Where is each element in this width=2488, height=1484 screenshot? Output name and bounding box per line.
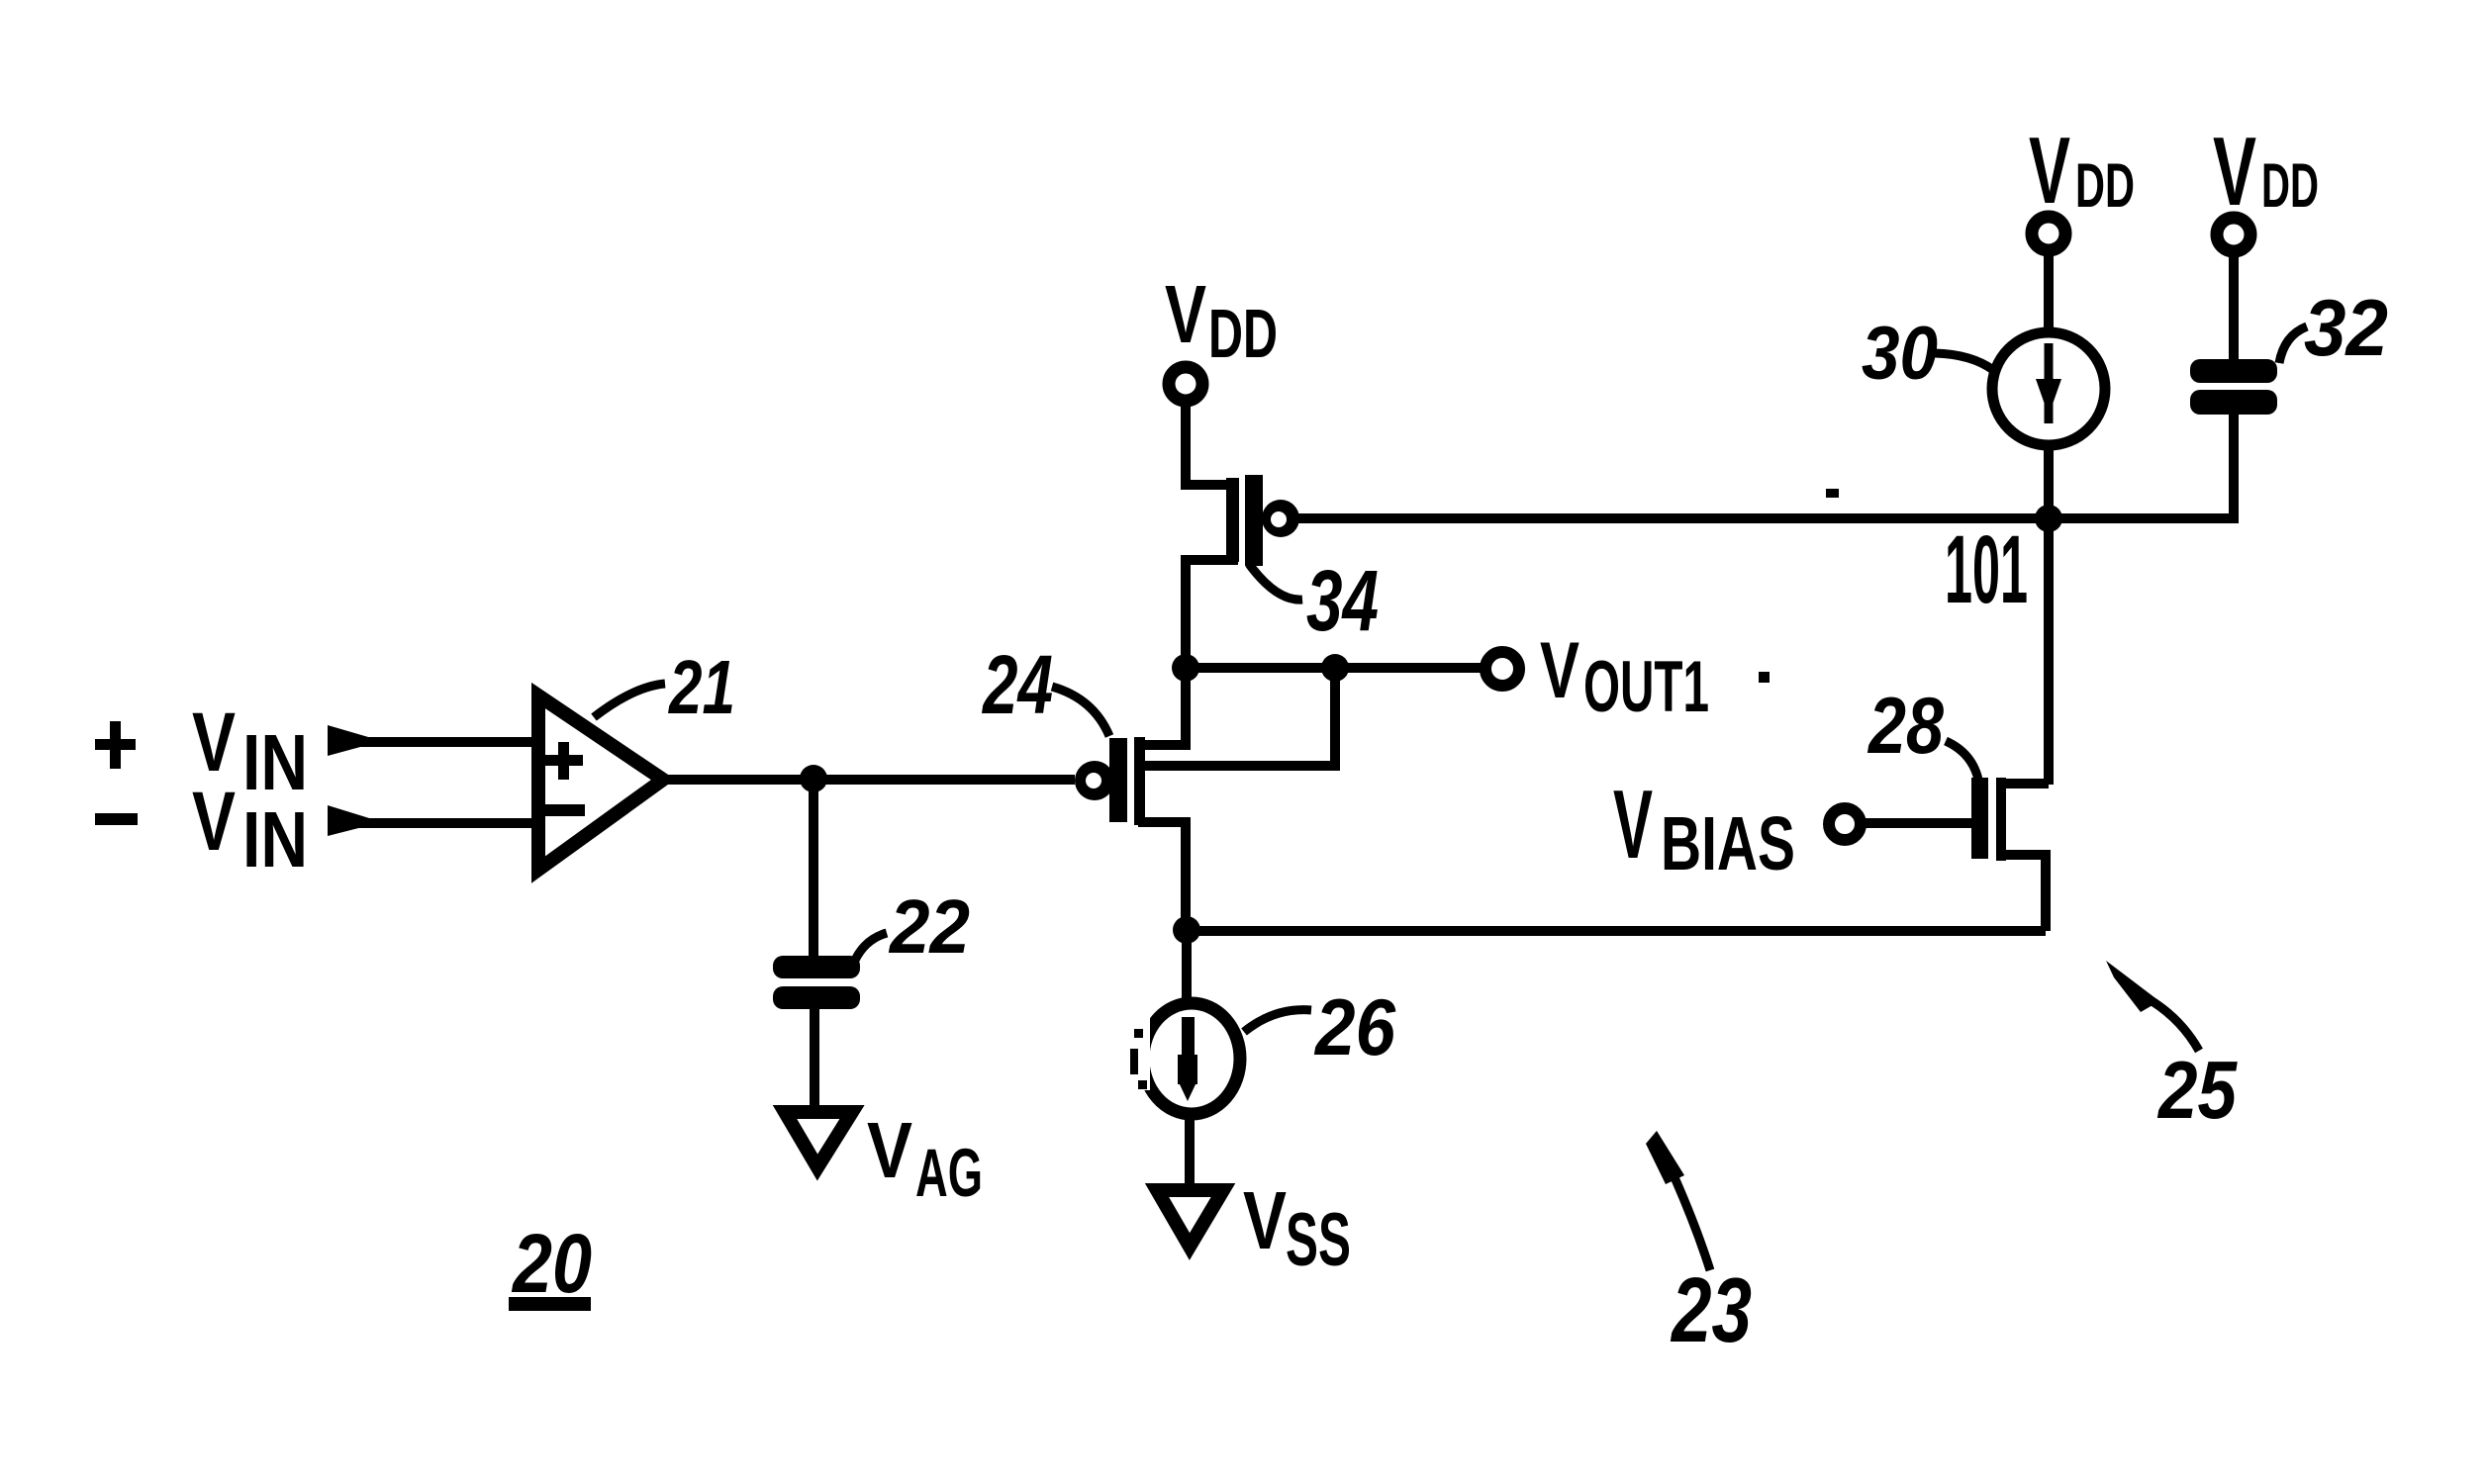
- wire bottom rail from transistor 24 source to transistor 28 source: [1187, 926, 2046, 936]
- wire capacitor 22 to VAG ground: [810, 1009, 819, 1112]
- label 30: [1862, 312, 1993, 396]
- svg-text:OUT1: OUT1: [1583, 647, 1709, 727]
- gate bubble: [1075, 761, 1114, 800]
- channel bar: [1134, 737, 1145, 825]
- svg-text:V: V: [1165, 268, 1206, 360]
- node junction dot above current source 26: [1173, 916, 1200, 944]
- wire current source 30 to node 101: [2044, 445, 2054, 518]
- node VOUT1 terminal: [1485, 652, 1519, 686]
- label 32: [2279, 284, 2388, 373]
- svg-text:V: V: [192, 775, 236, 868]
- svg-text:V: V: [2213, 117, 2256, 226]
- source lead: [1138, 822, 1186, 931]
- drain lead down: [1186, 560, 1238, 668]
- svg-text:24: 24: [981, 638, 1053, 731]
- capacitor C32: [2190, 359, 2277, 415]
- svg-text:20: 20: [511, 1217, 592, 1310]
- svg-text:DD: DD: [1208, 295, 1278, 372]
- ground VAG: [785, 1112, 852, 1167]
- svg-text:23: 23: [1670, 1258, 1752, 1361]
- transistor Q34: [1186, 475, 1299, 668]
- svg-text:V: V: [1540, 626, 1579, 715]
- op-amp U21: [538, 696, 663, 870]
- label 25 with arrow: [2106, 961, 2239, 1136]
- wire down to capacitor 22: [809, 779, 818, 959]
- svg-text:IN: IN: [242, 718, 308, 806]
- label 21: [594, 645, 735, 730]
- svg-text:22: 22: [888, 884, 970, 970]
- stray mark: [1759, 672, 1770, 683]
- label 28: [1866, 682, 1979, 785]
- svg-text:26: 26: [1313, 983, 1396, 1072]
- wire VDD to current source 30: [2044, 250, 2054, 336]
- node + polarity sign for Vin+: [95, 721, 136, 769]
- transistor Q28: [1971, 778, 2049, 931]
- label 26: [1244, 983, 1396, 1072]
- gate bubble: [1262, 500, 1299, 537]
- label 23 with arrow: [1646, 1131, 1752, 1361]
- svg-text:SS: SS: [1286, 1198, 1351, 1282]
- wire down to current source 26: [1182, 930, 1192, 1003]
- svg-text:30: 30: [1862, 312, 1938, 396]
- stray mark: [1826, 489, 1839, 498]
- svg-text:34: 34: [1306, 553, 1379, 649]
- node VBIAS terminal: [1829, 808, 1861, 840]
- wire Vout1 line: [1186, 663, 1483, 673]
- svg-text:V: V: [2029, 118, 2070, 224]
- svg-text:V: V: [1243, 1174, 1287, 1266]
- node VDD terminal of capacitor 32: [2217, 218, 2250, 251]
- wire VDD to transistor 34 source: [1186, 401, 1238, 485]
- wire node 101 down to transistor 28 drain: [2044, 518, 2054, 785]
- svg-text:AG: AG: [915, 1135, 983, 1211]
- node junction dot: [1321, 654, 1349, 682]
- wire input+ with arrowhead: [328, 725, 534, 756]
- label 24: [981, 638, 1109, 736]
- node VAG label: [867, 1106, 983, 1211]
- wire capacitor 32 down to node 101 line: [2229, 415, 2239, 523]
- svg-text:BIAS: BIAS: [1661, 801, 1795, 886]
- label 34: [1249, 553, 1379, 649]
- node VDD terminal of transistor 34: [1169, 367, 1202, 401]
- node VDD terminal of current source 30: [2032, 217, 2065, 250]
- node 101 junction dot: [2035, 505, 2062, 532]
- node - polarity sign for Vin-: [95, 813, 138, 825]
- svg-text:32: 32: [2304, 284, 2388, 373]
- label 22: [853, 884, 970, 970]
- svg-text:IN: IN: [242, 795, 308, 883]
- capacitor C22: [773, 956, 860, 1009]
- wire current source 26 to VSS ground: [1185, 1116, 1195, 1186]
- svg-text:DD: DD: [2261, 151, 2319, 221]
- node VOUT1 label: [1540, 626, 1709, 727]
- node VSS label: [1243, 1174, 1351, 1282]
- current source I26: [1124, 1003, 1240, 1114]
- wire VBIAS to transistor 28 gate: [1861, 818, 1973, 828]
- transistor Q24: [1075, 668, 1186, 931]
- node VIN- label: [192, 775, 308, 883]
- current source I30: [1992, 332, 2105, 445]
- wire VDD to capacitor 32: [2229, 251, 2239, 362]
- wire input- with arrowhead: [328, 805, 534, 836]
- label 20 underlined: [509, 1217, 592, 1311]
- svg-text:101: 101: [1945, 515, 2028, 623]
- drain lead: [1138, 668, 1186, 745]
- wire drain feedback loop to Vout line: [1140, 668, 1335, 766]
- svg-text:DD: DD: [2075, 151, 2135, 221]
- svg-text:25: 25: [2156, 1044, 2238, 1136]
- wire gate 34 to node 101 and capacitor 32: [1296, 513, 2234, 523]
- node junction dot at op-amp output: [800, 765, 827, 792]
- source lead: [2004, 855, 2046, 931]
- node VIN+ label: [192, 696, 308, 806]
- node junction dot: [1172, 654, 1199, 682]
- gate bar: [1109, 738, 1127, 822]
- svg-text:V: V: [867, 1106, 912, 1194]
- drain lead: [2004, 779, 2049, 788]
- node VBIAS label: [1613, 770, 1795, 886]
- svg-text:V: V: [1613, 770, 1653, 879]
- ground VSS: [1157, 1190, 1223, 1247]
- wire op-amp output to transistor 24 gate: [665, 775, 1075, 785]
- svg-text:28: 28: [1866, 682, 1944, 771]
- svg-text:21: 21: [667, 645, 735, 730]
